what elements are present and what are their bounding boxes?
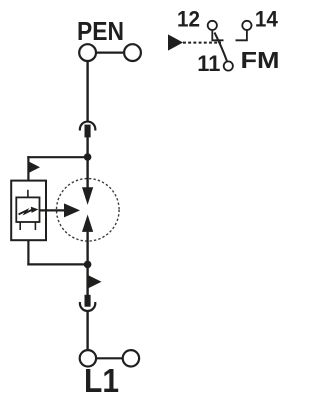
wire to L1 terminal (86, 312, 88, 351)
disconnect plug pin bottom (85, 295, 91, 307)
node junction bottom (84, 261, 92, 269)
FM terminal 11 circle (224, 61, 233, 70)
wire branch bottom horizontal (27, 263, 87, 265)
wire to bottom disconnect (86, 264, 88, 295)
FM contact blade (215, 33, 228, 62)
svg-text:14: 14 (255, 6, 279, 31)
electrode lead top tick (27, 190, 29, 198)
terminal PEN right (124, 44, 141, 61)
FM terminal 14 circle (242, 21, 251, 30)
trigger arrow line (40, 209, 65, 211)
lightning arrow in box (19, 210, 33, 215)
disconnect plug socket bottom (arc) (80, 302, 95, 311)
svg-text:FM: FM (241, 47, 280, 73)
spark gap electrode upper (82, 187, 93, 205)
arrow flag on left branch (29, 162, 40, 173)
FM contact 12 lead (212, 30, 223, 40)
spark gap electrode lower (82, 215, 93, 232)
arrow flag below bottom junction (87, 275, 101, 289)
wire from PEN terminal down (86, 61, 88, 123)
disconnect plug socket top (arc) (80, 122, 95, 131)
disconnect plug pin top (85, 125, 91, 138)
svg-text:11: 11 (197, 51, 220, 76)
electrode lead bottom tick left (19, 222, 21, 230)
node junction top (84, 153, 92, 161)
wire main below spark gap (86, 232, 88, 265)
FM signal arrow (168, 34, 183, 50)
wire PEN terminal link (96, 51, 124, 53)
wire L1 terminal link (96, 357, 123, 359)
wire main above spark gap (86, 157, 88, 189)
electrode lead bottom tick right (34, 222, 36, 230)
wire branch left upper vertical (27, 156, 29, 181)
wire branch top horizontal (27, 156, 87, 158)
svg-text:12: 12 (177, 6, 200, 31)
FM signal dashed line (183, 42, 221, 44)
svg-text:L1: L1 (84, 362, 119, 398)
surge component inner box (16, 197, 39, 222)
FM terminal 12 circle (208, 21, 217, 30)
wire branch left lower vertical (27, 240, 29, 266)
terminal L1 left (80, 350, 96, 366)
trigger arrowhead (64, 203, 80, 217)
terminal PEN left (79, 44, 96, 61)
wire to top junction (86, 137, 88, 158)
dashed circle spark gap outline (57, 179, 120, 242)
svg-text:PEN: PEN (77, 16, 124, 46)
terminal L1 right (123, 350, 139, 366)
arrester box outline (11, 181, 46, 241)
FM contact 14 lead (236, 30, 247, 40)
